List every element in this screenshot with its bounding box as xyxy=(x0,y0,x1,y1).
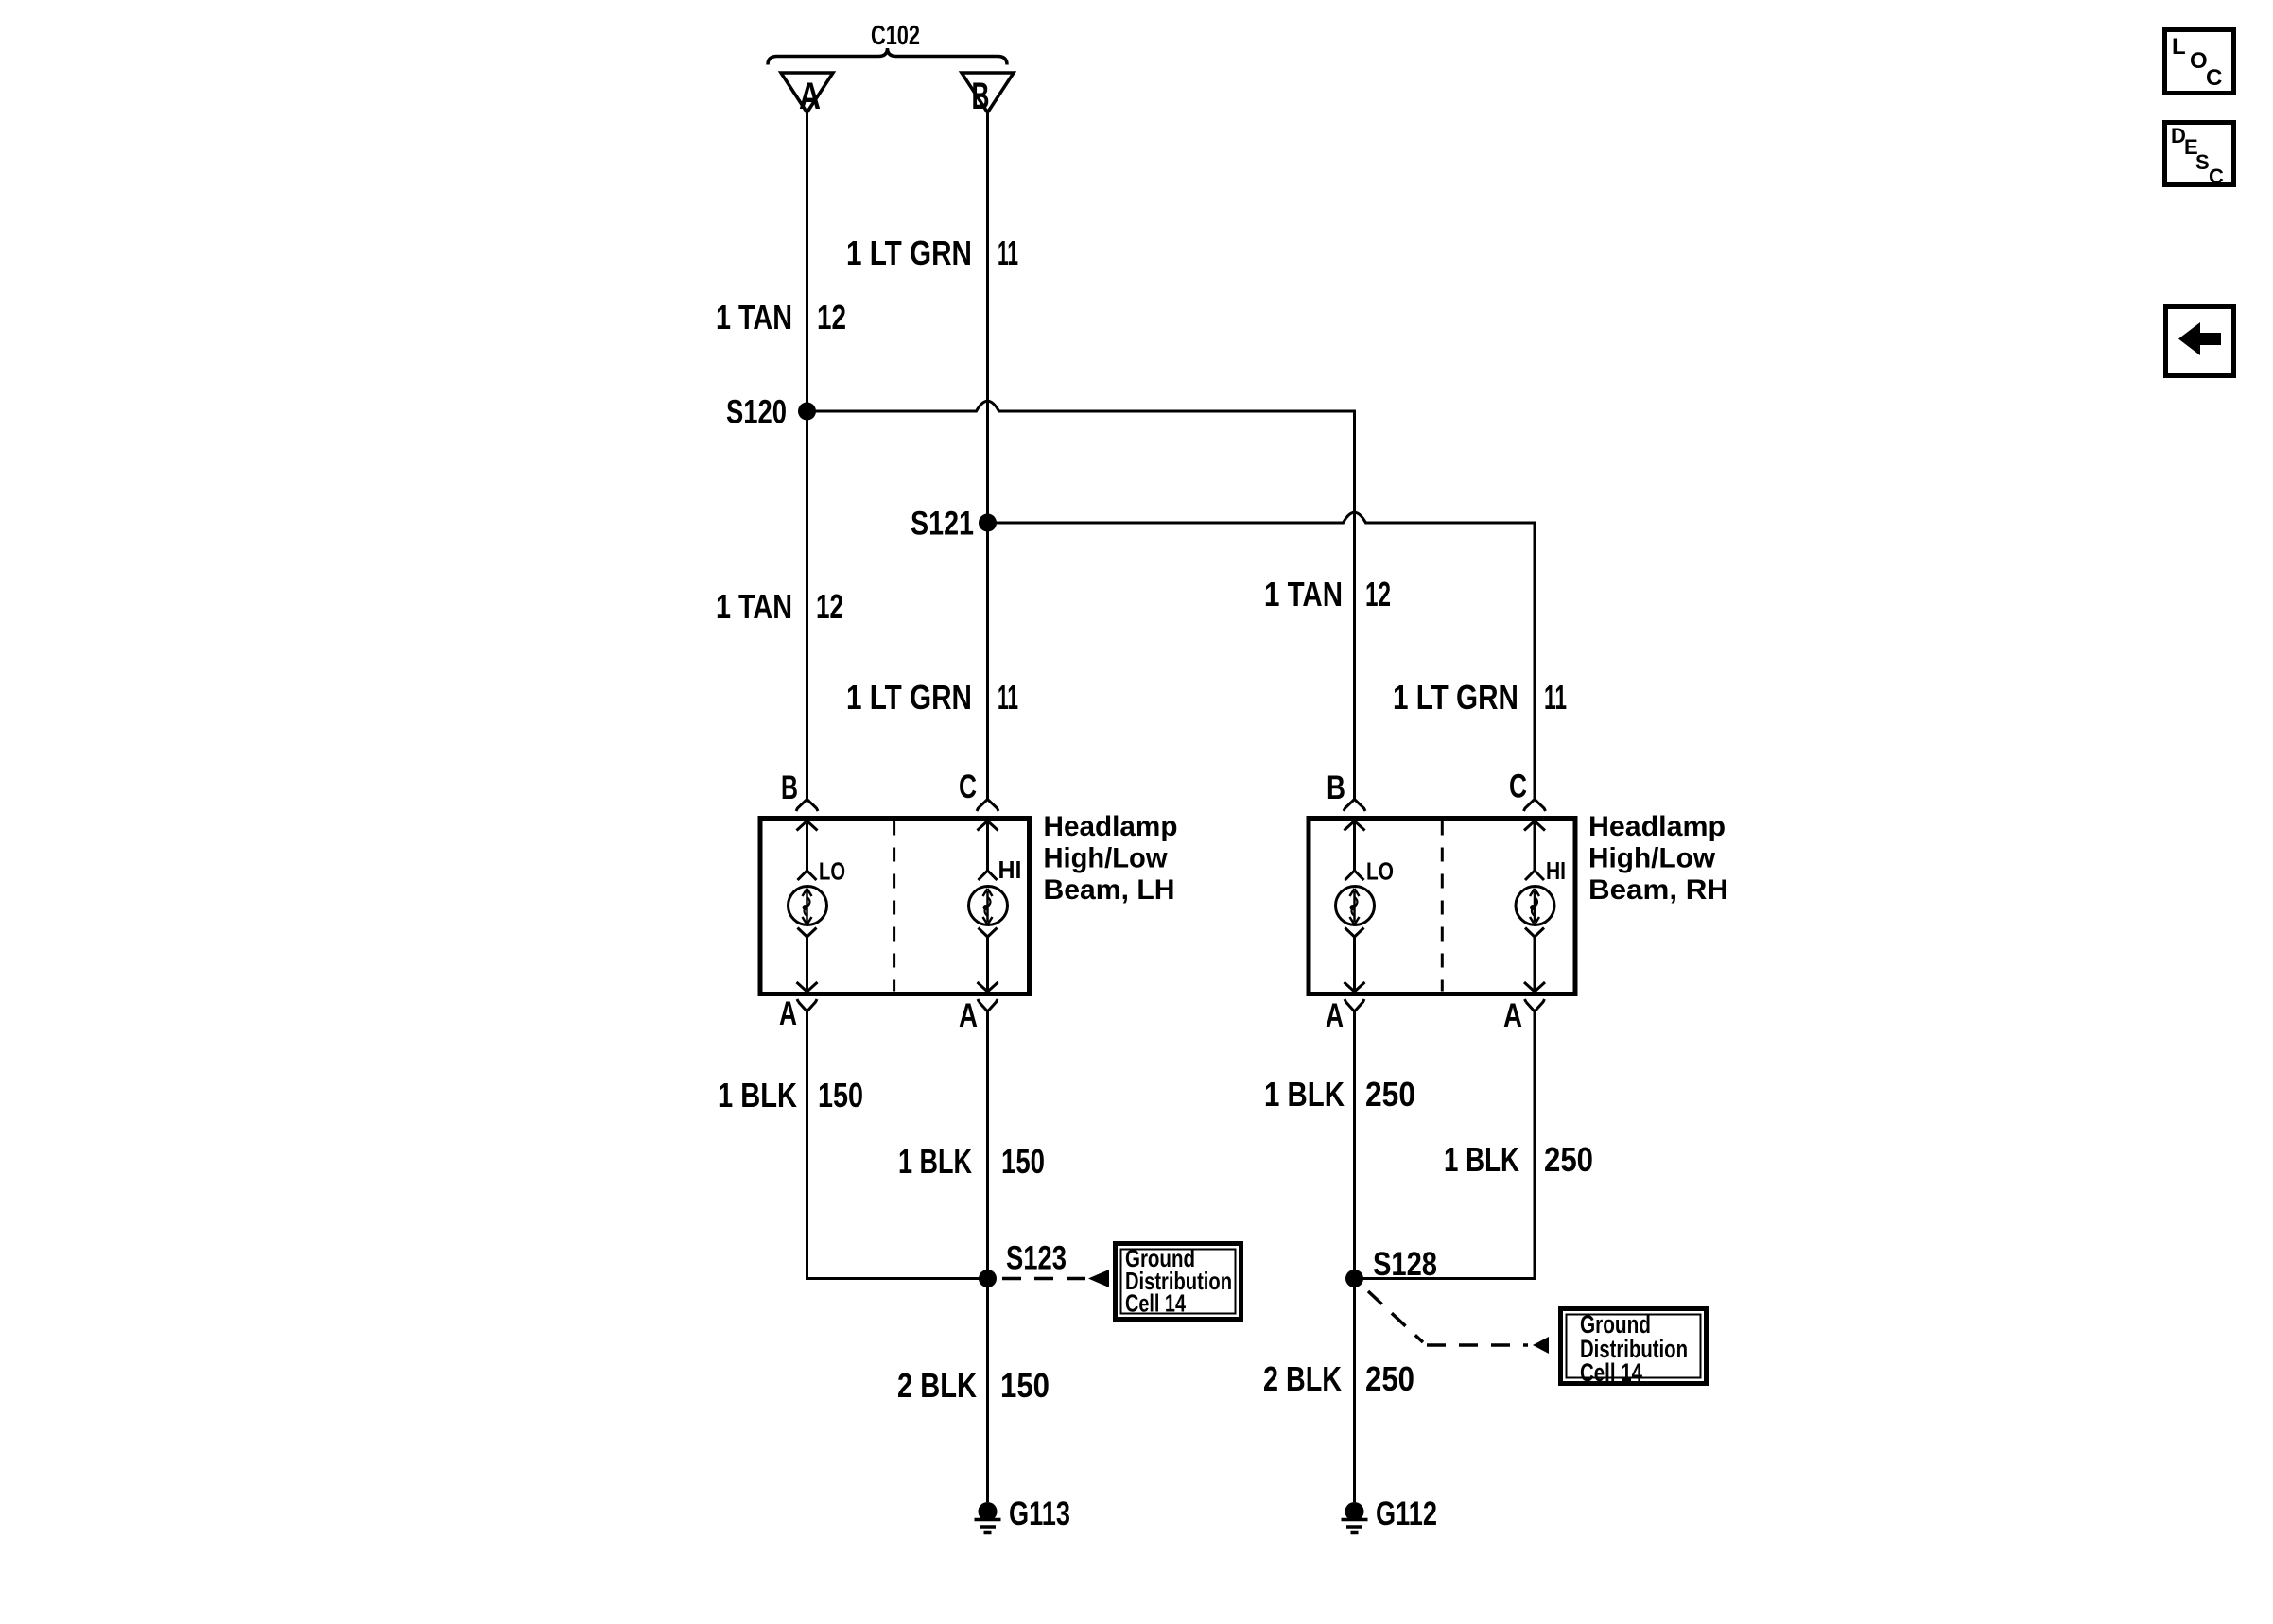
pin terminal C (RH) xyxy=(1524,800,1546,812)
splice S128 node xyxy=(1345,1270,1363,1287)
dashed leader S123 to ground distribution callout xyxy=(1002,1277,1087,1281)
wire: RH pin A (HI) down and left to S128 (1 BLK 250) xyxy=(1363,1011,1536,1279)
svg-text:2 BLK: 2 BLK xyxy=(897,1366,977,1405)
svg-text:1 TAN: 1 TAN xyxy=(716,298,792,337)
lamp filament HI (RH) xyxy=(1516,821,1554,993)
headlamp LH internal divider xyxy=(893,821,895,992)
svg-text:150: 150 xyxy=(1000,1366,1050,1405)
splice S120 node xyxy=(798,403,816,421)
svg-text:1 TAN: 1 TAN xyxy=(716,587,792,626)
svg-text:1 LT GRN: 1 LT GRN xyxy=(846,233,972,272)
pin terminal B (RH) xyxy=(1344,800,1365,812)
svg-text:Beam, RH: Beam, RH xyxy=(1588,874,1728,906)
svg-text:250: 250 xyxy=(1365,1075,1415,1114)
svg-text:1 TAN: 1 TAN xyxy=(1264,575,1343,613)
svg-text:S: S xyxy=(2195,150,2210,174)
svg-text:1 LT GRN: 1 LT GRN xyxy=(1393,678,1518,717)
svg-text:Headlamp: Headlamp xyxy=(1588,811,1726,842)
svg-text:LO: LO xyxy=(819,857,845,886)
wire: LH pin A (LO) down and right to S123 (1 BLK 150) xyxy=(807,1011,980,1279)
svg-text:1 BLK: 1 BLK xyxy=(898,1142,972,1181)
svg-text:1 BLK: 1 BLK xyxy=(1264,1075,1345,1114)
svg-text:G113: G113 xyxy=(1009,1495,1070,1532)
pin terminal A (LH HI) xyxy=(978,999,998,1011)
headlamp RH internal divider xyxy=(1441,821,1444,992)
pin terminal C (LH) xyxy=(977,800,998,812)
splice S121 node xyxy=(979,514,997,532)
svg-text:1 LT GRN: 1 LT GRN xyxy=(846,678,972,717)
lamp filament LO (LH) xyxy=(789,821,827,993)
headlamp high/low beam RH box xyxy=(1309,819,1575,994)
lamp filament HI (LH) xyxy=(969,821,1008,993)
svg-text:12: 12 xyxy=(817,298,846,337)
LOC icon box xyxy=(2165,30,2234,94)
pin terminal A (LH LO) xyxy=(797,999,817,1011)
back-arrow icon box xyxy=(2166,307,2234,376)
pin terminal B (LH) xyxy=(796,800,818,812)
dashed leader S128 to ground distribution callout xyxy=(1368,1291,1528,1345)
svg-text:1 BLK: 1 BLK xyxy=(1444,1140,1519,1179)
svg-text:250: 250 xyxy=(1365,1359,1414,1398)
svg-text:A: A xyxy=(779,995,797,1032)
svg-text:B: B xyxy=(972,76,990,117)
pin terminal A (RH LO) xyxy=(1345,999,1364,1011)
svg-text:11: 11 xyxy=(998,678,1018,717)
svg-text:A: A xyxy=(1326,997,1344,1034)
svg-text:A: A xyxy=(799,76,821,117)
svg-text:C: C xyxy=(2206,65,2222,91)
wire: RH pin A (LO) down through S128 to G112 (1 BLK 250 / 2 BLK 250) xyxy=(1353,1011,1356,1502)
lamp filament LO (RH) xyxy=(1336,821,1375,993)
svg-text:11: 11 xyxy=(998,233,1018,272)
svg-text:A: A xyxy=(1503,997,1522,1034)
svg-text:12: 12 xyxy=(1365,575,1391,613)
svg-text:HI: HI xyxy=(998,855,1022,884)
svg-text:C: C xyxy=(959,769,977,805)
wire: S120 to headlamp RH pin B (hop over wire B) xyxy=(807,401,1355,799)
svg-text:Beam, LH: Beam, LH xyxy=(1044,874,1175,906)
wire: S121 to headlamp RH pin C (hop over S120 branch) xyxy=(988,512,1536,799)
svg-text:C102: C102 xyxy=(871,21,920,51)
svg-text:C: C xyxy=(2209,164,2224,188)
svg-text:C: C xyxy=(1509,769,1527,805)
svg-text:High/Low: High/Low xyxy=(1588,843,1716,874)
svg-text:S123: S123 xyxy=(1006,1240,1067,1277)
svg-text:High/Low: High/Low xyxy=(1044,843,1169,874)
svg-text:150: 150 xyxy=(1001,1142,1045,1181)
svg-text:A: A xyxy=(959,997,978,1034)
ground distribution callout box (right) xyxy=(1561,1309,1707,1384)
ground G113 symbol xyxy=(975,1502,1001,1533)
svg-text:150: 150 xyxy=(818,1076,863,1114)
svg-text:HI: HI xyxy=(1546,856,1566,885)
svg-text:G112: G112 xyxy=(1376,1495,1437,1532)
svg-text:B: B xyxy=(1327,769,1345,806)
svg-text:1 BLK: 1 BLK xyxy=(718,1076,797,1114)
svg-text:2 BLK: 2 BLK xyxy=(1263,1359,1342,1398)
headlamp high/low beam LH box xyxy=(760,819,1030,994)
splice S123 node xyxy=(979,1270,997,1287)
svg-text:L: L xyxy=(2172,34,2186,60)
ground G112 symbol xyxy=(1342,1502,1368,1533)
DESC icon box xyxy=(2165,123,2234,185)
svg-text:S120: S120 xyxy=(726,394,787,431)
svg-text:S128: S128 xyxy=(1373,1246,1437,1283)
svg-text:11: 11 xyxy=(1544,678,1567,717)
wire: C102-B down to headlamp LH pin C (1 LT GRN 11) xyxy=(986,112,989,800)
svg-text:Cell 14: Cell 14 xyxy=(1125,1289,1186,1318)
svg-text:Headlamp: Headlamp xyxy=(1044,811,1178,842)
svg-text:O: O xyxy=(2190,48,2208,74)
svg-text:Cell 14: Cell 14 xyxy=(1580,1358,1642,1387)
connector C102 brace xyxy=(768,48,1007,65)
svg-text:12: 12 xyxy=(816,587,843,626)
connector pin B triangle xyxy=(962,73,1014,112)
ground distribution callout box (left) xyxy=(1116,1244,1241,1320)
svg-text:B: B xyxy=(781,769,798,806)
svg-text:LO: LO xyxy=(1366,857,1394,886)
connector pin A triangle xyxy=(781,73,833,112)
wire: LH pin A (HI) down through S123 to G113 (1 BLK 150 / 2 BLK 150) xyxy=(986,1011,989,1502)
svg-text:S121: S121 xyxy=(911,506,974,543)
pin terminal A (RH HI) xyxy=(1525,999,1545,1011)
svg-text:250: 250 xyxy=(1544,1140,1593,1179)
wire: C102-A down to headlamp LH pin B (1 TAN 12) xyxy=(806,112,808,800)
